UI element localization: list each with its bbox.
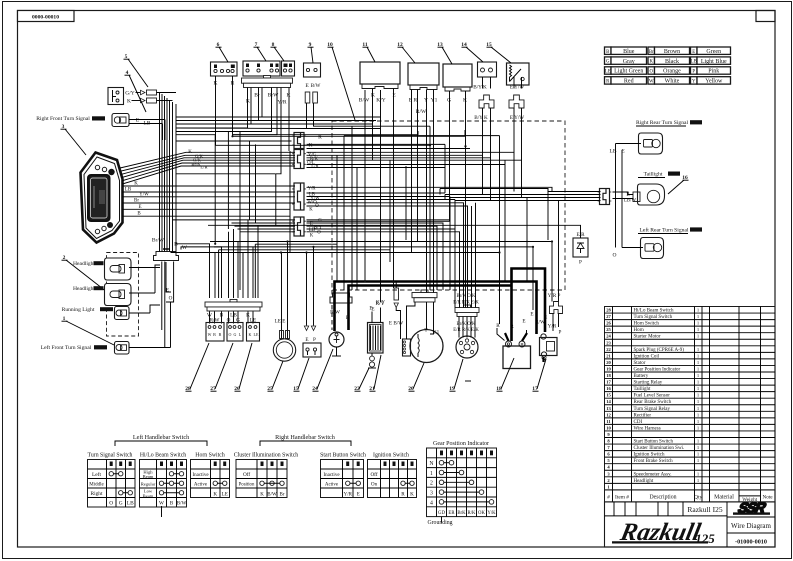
svg-text:20: 20 — [606, 360, 611, 365]
svg-text:Br: Br — [280, 493, 285, 498]
svg-text:Left Handlebar Switch: Left Handlebar Switch — [133, 434, 190, 441]
svg-text:O: O — [650, 70, 654, 75]
starting relay 17 — [550, 302, 563, 314]
wires rectifier 12 down — [411, 90, 413, 253]
svg-text:E Y/W: E Y/W — [510, 115, 524, 121]
wire from 5 G/Y — [157, 92, 177, 94]
wires comp15 down — [513, 108, 515, 192]
svg-text:Note: Note — [762, 494, 773, 500]
long horizontal W — [214, 247, 533, 310]
svg-text:Y/K: Y/K — [487, 511, 496, 516]
svg-text:G: G — [234, 332, 237, 337]
svg-text:E R: E R — [409, 98, 418, 104]
svg-text:W: W — [649, 80, 654, 85]
diode rectifier in harness — [573, 238, 588, 257]
inline connector C — [294, 183, 304, 210]
svg-text:Y1: Y1 — [431, 98, 438, 104]
svg-text:LE: LE — [222, 492, 228, 498]
svg-text:Item #: Item # — [615, 494, 629, 500]
svg-text:-01000-0010: -01000-0010 — [735, 539, 767, 546]
svg-text:Middle: Middle — [89, 483, 104, 488]
svg-text:W: W — [182, 245, 188, 251]
svg-text:2: 2 — [430, 481, 433, 487]
misc harness verticals — [249, 141, 251, 220]
svg-text:B/Y K: B/Y K — [473, 85, 487, 91]
gear indicator wires — [458, 317, 460, 338]
connector 14 rear brake switch — [478, 62, 497, 77]
stator harness bar — [421, 290, 428, 293]
wire B from headlight connector — [176, 244, 210, 298]
svg-text:1: 1 — [430, 471, 433, 477]
svg-text:K: K — [310, 234, 314, 239]
inline connector A — [294, 133, 304, 149]
wire LB from cluster — [123, 191, 296, 193]
svg-text:Cluster Illumination Swi.: Cluster Illumination Swi. — [634, 446, 685, 451]
svg-text:OK: OK — [478, 511, 485, 516]
svg-text:Active: Active — [194, 483, 208, 488]
headlight wires — [129, 267, 160, 269]
junction dots — [364, 280, 366, 282]
left vertical harness bundle — [159, 92, 161, 252]
svg-text:19: 19 — [606, 366, 611, 371]
inline connector D — [294, 217, 304, 236]
stator 20 — [410, 330, 443, 363]
wire from 5 K — [157, 100, 173, 102]
plug under 15 — [509, 95, 524, 108]
wire to right rear turn signal — [616, 143, 642, 145]
svg-text:Regular: Regular — [141, 482, 156, 487]
svg-text:Y/R: Y/R — [344, 493, 353, 498]
connector 8 start button connector — [282, 61, 295, 76]
svg-text:3: 3 — [430, 491, 433, 497]
svg-text:Right Handlebar Switch: Right Handlebar Switch — [275, 434, 336, 441]
wire K connector A — [230, 140, 292, 142]
svg-text:B: B — [170, 501, 174, 507]
svg-text:K: K — [134, 182, 138, 187]
stubs bar to connectors — [209, 312, 211, 324]
misc harness horizontals — [177, 116, 381, 118]
svg-text:Gray: Gray — [623, 59, 635, 65]
plug under 14 — [479, 95, 494, 108]
parts table header row — [605, 490, 776, 502]
svg-text:Description: Description — [649, 494, 676, 500]
wires taillight connector to lamps — [615, 144, 617, 248]
svg-text:Hi/Lo Beam Switch: Hi/Lo Beam Switch — [634, 309, 674, 314]
svg-text:K: K — [410, 492, 414, 498]
svg-text:Light Green: Light Green — [614, 69, 643, 75]
speedometer display — [88, 175, 110, 221]
svg-text:E B/W: E B/W — [389, 321, 403, 327]
svg-text:K: K — [260, 493, 264, 498]
wires relay13 down — [307, 91, 450, 221]
svg-text:P: P — [559, 330, 562, 336]
svg-text:Light Blue: Light Blue — [701, 59, 727, 65]
wires comp14 down — [482, 108, 484, 195]
svg-text:13: 13 — [606, 406, 611, 411]
long horizontal O — [171, 253, 500, 325]
wires comp9 down — [307, 103, 381, 129]
svg-text:Starting Relay: Starting Relay — [634, 381, 663, 386]
svg-text:Horn Switch: Horn Switch — [195, 453, 225, 459]
svg-text:Y/W: Y/W — [139, 192, 149, 197]
svg-text:LB: LB — [125, 188, 132, 193]
svg-text:23: 23 — [606, 340, 611, 345]
svg-text:24: 24 — [606, 334, 611, 339]
svg-text:B/W: B/W — [359, 98, 370, 104]
svg-text:Ignition Switch: Ignition Switch — [373, 453, 409, 459]
svg-text:Material: Material — [714, 494, 734, 500]
svg-text:E Y/W: E Y/W — [510, 85, 524, 91]
headlight assembly dashed box 2 — [107, 253, 139, 337]
svg-text:Headlight: Headlight — [73, 261, 96, 267]
svg-text:Spark Plug (CPR6E A-9): Spark Plug (CPR6E A-9) — [634, 348, 685, 353]
svg-text:GD: GD — [438, 511, 445, 516]
svg-text:Inactive: Inactive — [323, 473, 340, 478]
svg-text:4: 4 — [430, 500, 433, 506]
svg-text:G/Y: G/Y — [125, 91, 135, 97]
long horizontal E to rectifier — [208, 225, 581, 238]
svg-text:K: K — [309, 208, 313, 213]
connector 7 cluster connector — [243, 61, 280, 76]
battery 18 — [503, 346, 531, 369]
wires stator Y Y1 — [426, 302, 428, 330]
wires comp6 down — [216, 76, 431, 145]
gear position indicator 19 — [456, 336, 478, 358]
spark plug 22 — [371, 353, 373, 356]
svg-text:Wire Diagram: Wire Diagram — [731, 522, 772, 530]
svg-text:K/Y: K/Y — [376, 98, 386, 104]
svg-text:E: E — [522, 319, 525, 325]
bullet on stator E wire — [394, 288, 399, 300]
svg-text:L/R: L/R — [311, 165, 319, 170]
svg-text:B: B — [606, 50, 609, 55]
svg-text:LB: LB — [691, 60, 697, 65]
wire R connector A — [307, 130, 466, 136]
svg-text:Turn Signal Switch: Turn Signal Switch — [88, 453, 133, 459]
turn signal relay 13 — [443, 64, 472, 87]
svg-text:B: B — [213, 332, 216, 337]
svg-text:Fuel Level Sensor: Fuel Level Sensor — [634, 394, 671, 399]
svg-text:P: P — [579, 260, 582, 266]
wire K/Y to coil — [380, 308, 382, 323]
svg-text:G: G — [606, 60, 610, 65]
svg-text:Green: Green — [706, 49, 721, 55]
svg-text:E: E — [305, 337, 308, 343]
svg-text:G: G — [447, 98, 451, 104]
starter motor 24 — [329, 332, 344, 347]
title block — [605, 502, 776, 547]
svg-text:K: K — [249, 332, 252, 337]
headlight bundle below connector — [161, 262, 163, 331]
wire E headlight vertical — [155, 265, 160, 293]
wire Br from cluster — [123, 202, 296, 204]
svg-text:Horn Switch: Horn Switch — [634, 322, 660, 327]
wire Y/W from cluster — [123, 196, 296, 198]
connector B bundle right — [307, 151, 515, 153]
connector bar under 7 and 8 — [264, 76, 271, 79]
battery R sense wires — [497, 328, 505, 341]
svg-text:Horn: Horn — [634, 328, 645, 333]
svg-text:21: 21 — [606, 353, 611, 358]
svg-text:18: 18 — [606, 373, 611, 378]
svg-text:CDI: CDI — [634, 420, 643, 425]
inline connector B — [294, 150, 304, 169]
extra horizontal lower harness — [219, 249, 390, 251]
svg-text:Blue: Blue — [623, 49, 635, 55]
horn verticals — [281, 253, 283, 325]
svg-text:Taillight: Taillight — [634, 387, 651, 392]
svg-text:P: P — [313, 337, 316, 343]
connector 28 hi-lo beam switch — [206, 323, 224, 342]
svg-text:Ignition Switch: Ignition Switch — [634, 453, 665, 458]
svg-text:125: 125 — [695, 531, 715, 546]
svg-text:O: O — [229, 332, 232, 337]
svg-text:Ignition Coil: Ignition Coil — [634, 354, 660, 359]
svg-text:W: W — [208, 332, 212, 337]
svg-text:K: K — [287, 93, 291, 99]
svg-text:16: 16 — [606, 386, 611, 391]
svg-text:Pink: Pink — [708, 69, 719, 75]
verticals right of harness — [499, 136, 501, 324]
svg-text:Active: Active — [325, 483, 339, 488]
svg-text:O: O — [613, 253, 617, 259]
svg-text:O: O — [317, 231, 321, 236]
svg-text:Br: Br — [134, 199, 139, 204]
wire W from headlight connector — [181, 247, 222, 298]
wires CDI down — [364, 90, 366, 282]
svg-text:O: O — [109, 501, 113, 507]
svg-text:R: R — [401, 492, 405, 498]
taillight harness connector — [600, 189, 610, 205]
svg-text:27: 27 — [606, 314, 611, 319]
svg-text:O: O — [315, 204, 319, 209]
svg-text:Y: Y — [424, 98, 428, 104]
svg-text:Speedometer Assy.: Speedometer Assy. — [634, 472, 672, 477]
svg-text:Headlight: Headlight — [73, 286, 96, 292]
svg-text:O: O — [169, 296, 173, 302]
svg-text:#: # — [607, 494, 610, 500]
svg-text:17: 17 — [606, 380, 611, 385]
svg-text:Qty: Qty — [694, 494, 702, 500]
svg-text:Stator: Stator — [634, 361, 646, 366]
flasher relay 15 — [507, 63, 530, 85]
svg-text:Start Button Switch: Start Button Switch — [320, 453, 366, 459]
svg-text:Left: Left — [92, 471, 101, 478]
svg-text:12: 12 — [606, 412, 611, 417]
svg-text:Front Brake Switch: Front Brake Switch — [634, 459, 674, 464]
Razkull script logo — [617, 518, 703, 546]
svg-text:Gear Position Indicator: Gear Position Indicator — [433, 441, 489, 447]
wire E from cluster — [123, 208, 291, 210]
svg-text:Headlight: Headlight — [634, 479, 654, 484]
front brake switch 5 — [108, 88, 124, 105]
svg-text:Br: Br — [254, 93, 260, 99]
svg-text:K: K — [463, 98, 467, 104]
parts list table — [605, 307, 776, 490]
connector 26 horn switch — [247, 323, 260, 342]
svg-text:LB/W: LB/W — [624, 199, 636, 204]
svg-text:White: White — [665, 79, 680, 85]
svg-text:LE: LE — [254, 332, 259, 337]
stator E BW wires — [407, 302, 416, 339]
rectifier 12 — [408, 63, 439, 85]
connector D bundle left — [173, 219, 295, 221]
wires from turn signal 4 down — [164, 120, 166, 141]
CDI unit 11 — [360, 62, 400, 84]
revision box top right — [756, 11, 775, 22]
svg-text:Beam: Beam — [143, 494, 154, 499]
svg-text:Beam: Beam — [143, 474, 154, 479]
svg-text:B: B — [219, 332, 222, 337]
svg-text:Yellow: Yellow — [705, 79, 723, 85]
svg-text:Left Rear Turn Signal: Left Rear Turn Signal — [640, 227, 689, 234]
svg-text:25: 25 — [606, 327, 611, 332]
svg-text:Right Front Turn Signal: Right Front Turn Signal — [36, 116, 90, 122]
svg-text:K: K — [650, 60, 654, 65]
svg-text:Off: Off — [243, 471, 250, 478]
svg-text:K: K — [246, 99, 250, 105]
connector D bundle right — [307, 219, 450, 221]
title box part number — [18, 11, 75, 22]
svg-text:0000-00010: 0000-00010 — [32, 15, 59, 21]
svg-text:Y/R: Y/R — [548, 324, 557, 330]
svg-text:10: 10 — [606, 425, 611, 430]
svg-text:B/W: B/W — [311, 83, 321, 89]
svg-text:Start Button Switch: Start Button Switch — [634, 440, 674, 445]
svg-text:L/R: L/R — [200, 165, 208, 170]
svg-text:Black: Black — [665, 59, 679, 65]
bundle jogs — [439, 189, 441, 195]
svg-text:Br: Br — [649, 50, 654, 55]
wire O to left front turn signal — [170, 302, 172, 348]
svg-text:Red: Red — [624, 79, 634, 85]
svg-text:Rectifier: Rectifier — [634, 413, 652, 418]
svg-text:Gear Position Indicator: Gear Position Indicator — [634, 367, 681, 372]
svg-text:P: P — [692, 70, 695, 75]
starter motor connector — [330, 293, 352, 303]
svg-text:E: E — [530, 312, 533, 318]
bullet connectors under 9 — [305, 92, 310, 103]
svg-text:28: 28 — [606, 308, 611, 313]
relay plug stub wires — [552, 314, 554, 332]
wire to left rear turn signal — [622, 247, 643, 249]
svg-text:Orange: Orange — [663, 69, 681, 75]
svg-text:LB: LB — [127, 501, 134, 507]
wire colour legend table — [605, 47, 612, 54]
speedometer screws — [95, 165, 99, 169]
long horizontal B — [210, 242, 552, 302]
svg-text:E: E — [357, 493, 360, 498]
svg-text:Br/W: Br/W — [152, 238, 165, 244]
verticals from handlebar bar — [233, 229, 235, 298]
svg-text:Running Light: Running Light — [62, 307, 95, 313]
svg-text:W: W — [159, 501, 164, 507]
connector 6 ignition switch connector — [211, 62, 238, 76]
svg-text:Turn Signal Relay: Turn Signal Relay — [634, 407, 671, 412]
grounding label — [441, 517, 443, 523]
svg-text:Razkull I25: Razkull I25 — [687, 505, 722, 514]
svg-text:14: 14 — [606, 399, 611, 404]
svg-text:Turn Signal Switch: Turn Signal Switch — [634, 315, 673, 320]
gear indicator connector bar — [464, 305, 471, 308]
svg-text:BrK: BrK — [457, 511, 466, 516]
svg-text:B/Y K: B/Y K — [474, 115, 488, 121]
svg-text:Y: Y — [692, 80, 696, 85]
svg-text:Wire Harness: Wire Harness — [634, 426, 661, 431]
svg-text:K: K — [213, 492, 217, 498]
svg-text:K: K — [127, 99, 131, 105]
svg-text:LE: LE — [605, 70, 611, 75]
svg-text:ER: ER — [448, 511, 455, 516]
extra crossing horizontals upper harness — [215, 135, 217, 146]
connector C bundle right — [307, 187, 553, 191]
svg-text:Brown: Brown — [664, 49, 680, 55]
svg-text:Inactive: Inactive — [192, 473, 209, 478]
svg-text:R/K: R/K — [468, 511, 477, 516]
battery thick cables — [335, 282, 537, 335]
SSR logo — [735, 501, 768, 516]
wires comp7 down — [177, 88, 248, 129]
svg-text:B/W: B/W — [267, 493, 277, 498]
svg-text:K: K — [371, 93, 375, 99]
svg-text:Grounding: Grounding — [427, 520, 452, 526]
svg-text:Right Rear Turn Signal: Right Rear Turn Signal — [636, 120, 689, 126]
svg-text:Off: Off — [370, 471, 377, 478]
connector 27 turn signal switch — [227, 323, 243, 342]
fuel sensor verticals — [306, 253, 308, 311]
svg-text:Taillight: Taillight — [644, 172, 663, 178]
wire B from cluster — [123, 215, 291, 217]
svg-text:22: 22 — [606, 347, 611, 352]
svg-text:Battery: Battery — [634, 374, 649, 379]
svg-text:On: On — [371, 482, 378, 488]
svg-text:G: G — [119, 501, 123, 507]
svg-text:Position: Position — [239, 483, 255, 488]
svg-text:Left Front Turn Signal: Left Front Turn Signal — [41, 344, 92, 351]
svg-text:Rear Brake Switch: Rear Brake Switch — [634, 400, 672, 405]
svg-text:26: 26 — [606, 321, 611, 326]
mid harness extra verticals — [356, 168, 358, 290]
svg-text:E: E — [692, 50, 695, 55]
wire harness dashed boundary 10 — [332, 121, 565, 290]
svg-text:K: K — [188, 150, 192, 155]
wire K from cluster — [123, 185, 296, 187]
svg-text:Y/R: Y/R — [277, 100, 287, 106]
taillight bundle right — [440, 189, 601, 192]
svg-text:E: E — [166, 288, 169, 294]
svg-text:E: E — [138, 205, 141, 210]
wire bundle cluster diagonal — [120, 152, 295, 168]
svg-text:R: R — [318, 134, 322, 140]
svg-text:Cluster Illumination Switch: Cluster Illumination Switch — [234, 453, 299, 459]
headlight harness connector — [154, 252, 179, 261]
wire diagram cell — [727, 516, 775, 518]
svg-text:LE E: LE E — [275, 319, 286, 325]
svg-text:Right: Right — [91, 491, 103, 497]
svg-text:Starter Motor: Starter Motor — [634, 335, 661, 340]
svg-text:15: 15 — [606, 393, 611, 398]
connector 9 front brake switch connector — [304, 63, 321, 77]
svg-text:Hi/Lo Beam Switch: Hi/Lo Beam Switch — [140, 453, 186, 459]
handlebar connector bar — [230, 300, 237, 303]
svg-text:11: 11 — [606, 419, 611, 424]
svg-text:B/W: B/W — [177, 501, 187, 507]
